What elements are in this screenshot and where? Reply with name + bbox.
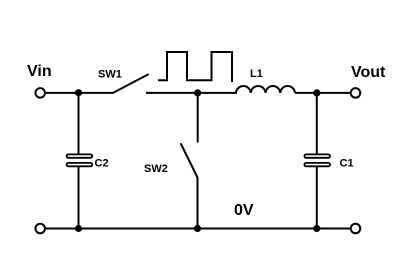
capacitor C2 top plate: [67, 154, 93, 157]
capacitor C1 top plate: [304, 154, 330, 157]
wire L1 to Vout: [295, 92, 350, 94]
svg-text:SW2: SW2: [144, 163, 168, 175]
junction 0V/C2: [75, 225, 82, 232]
junction SW1/SW2 node: [194, 89, 201, 96]
wire C2 lower lead: [78, 167, 80, 229]
junction 0V/SW2: [194, 225, 201, 232]
svg-text:Vin: Vin: [27, 63, 52, 80]
svg-text:Vout: Vout: [351, 64, 386, 81]
junction Vout/C1: [313, 89, 320, 96]
inductor L1: [236, 86, 295, 93]
svg-text:SW1: SW1: [98, 69, 122, 81]
junction 0V/C1: [313, 225, 320, 232]
capacitor C2 bottom plate: [67, 163, 93, 166]
junction Vin/C2: [75, 89, 82, 96]
svg-text:L1: L1: [250, 68, 263, 80]
terminal Vin: [35, 88, 45, 98]
wire SW1 to L1: [146, 92, 237, 94]
capacitor C1 bottom plate: [304, 163, 330, 166]
wire C1 lower lead: [316, 167, 318, 229]
svg-text:C2: C2: [95, 158, 109, 170]
svg-text:C1: C1: [340, 158, 354, 170]
wire 0V rail: [46, 228, 350, 230]
switch SW2 blade: [181, 144, 198, 178]
svg-text:0V: 0V: [234, 202, 254, 219]
switch SW1 blade: [113, 75, 148, 93]
terminal Vout: [351, 88, 361, 98]
terminal 0V left: [35, 224, 45, 234]
wire SW2 lower lead: [197, 178, 199, 229]
terminal 0V right: [351, 224, 361, 234]
square wave symbol: [158, 52, 232, 82]
wire SW2 upper lead: [197, 93, 199, 143]
wire Vin to SW1: [46, 92, 113, 94]
wire C1 upper lead: [316, 93, 318, 154]
wire C2 upper lead: [78, 93, 80, 154]
